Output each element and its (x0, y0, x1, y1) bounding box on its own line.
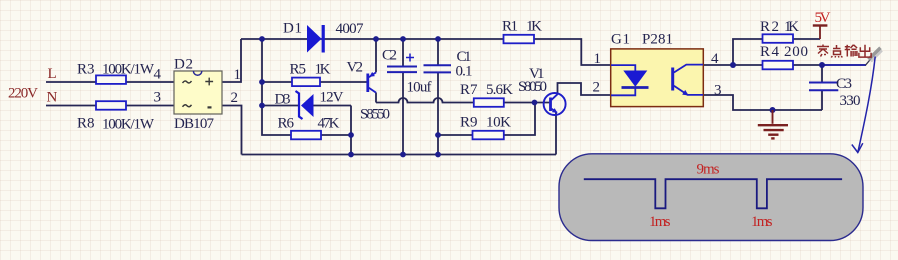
node V1 base (532, 100, 538, 106)
wire D3 anode to column (314, 105, 352, 107)
svg-text:47K: 47K (318, 116, 340, 132)
capacitor C2 10uf (387, 54, 417, 73)
net 零点输出 (drawn glyphs) (817, 45, 871, 58)
wire V1 emitter down to bottom rail (555, 113, 557, 155)
svg-text:R7: R7 (460, 82, 478, 98)
svg-text:12V: 12V (320, 90, 344, 106)
svg-text:P281: P281 (642, 32, 673, 48)
ground symbol (758, 110, 788, 138)
svg-text:2: 2 (231, 90, 239, 106)
svg-text:1ms: 1ms (751, 214, 773, 230)
probe marker at output (869, 48, 881, 60)
wire V2 emitter up to top rail (375, 39, 377, 72)
wire bottom rail (242, 154, 557, 156)
svg-text:0.1: 0.1 (456, 64, 473, 80)
wire C2 top lead (402, 39, 404, 67)
wire R5 branch left (262, 81, 292, 83)
node bottom rail / C2 (400, 152, 406, 158)
waveform trace 9ms/1ms pulses (584, 179, 842, 208)
node bottom rail / C1 (435, 152, 441, 158)
wire vertical rail from top to R6 row (262, 39, 291, 135)
transistor V2 S8550 (PNP) (366, 72, 376, 93)
svg-text:R2: R2 (760, 19, 779, 35)
node pin4 / R2 / R4 (730, 62, 736, 68)
arrow from output to waveform box (852, 57, 875, 153)
resistor R2 (763, 34, 794, 43)
wire V2 collector down (375, 93, 377, 103)
wire R5 to V2 base (320, 81, 367, 83)
svg-text:S8550: S8550 (360, 107, 390, 123)
node rail / D3 (259, 103, 265, 109)
waveform annotation box (559, 154, 863, 241)
svg-text:C3: C3 (836, 76, 852, 92)
svg-text:10uf: 10uf (407, 80, 432, 96)
svg-text:1K: 1K (784, 19, 799, 35)
resistor R1 (504, 35, 535, 44)
svg-text:100K/1W: 100K/1W (102, 117, 155, 133)
resistor R8 (96, 101, 126, 110)
svg-text:C2: C2 (382, 48, 397, 64)
svg-text:9ms: 9ms (697, 162, 720, 178)
svg-text:5V: 5V (815, 10, 831, 26)
svg-text:DB107: DB107 (174, 116, 215, 132)
resistor R4 (763, 61, 794, 70)
node top rail / C2 (400, 36, 406, 42)
svg-text:D1: D1 (283, 21, 302, 37)
node R6 / column (348, 132, 354, 138)
svg-text:10K: 10K (486, 115, 511, 131)
svg-text:4: 4 (711, 51, 719, 67)
transistor V1 S8050 (NPN) (544, 93, 566, 115)
node bottom rail / column (348, 152, 354, 158)
svg-text:1K: 1K (526, 19, 542, 35)
svg-text:V2: V2 (347, 60, 364, 76)
node ground tap (770, 107, 776, 113)
phototransistor inside opto (671, 68, 674, 91)
LED inside opto (611, 65, 635, 70)
wire L input to R3 (46, 81, 96, 83)
svg-text:R6: R6 (278, 116, 295, 132)
wire R1 to opto pin1 (534, 39, 611, 65)
svg-text:3: 3 (714, 83, 722, 99)
svg-text:R5: R5 (290, 62, 307, 78)
wire V1 collector to opto pin2 (558, 83, 612, 95)
svg-text:1K: 1K (315, 62, 331, 78)
wire R9 row left (438, 134, 473, 136)
wire N input to R8 (46, 105, 96, 107)
optocoupler G1 P281 (611, 49, 704, 107)
wire D3 branch left (262, 105, 298, 107)
wire top rail through D1 to R1 (241, 38, 504, 40)
capacitor C3 330 (809, 83, 838, 91)
wire column x351 down to bottom rail (350, 106, 352, 155)
node top rail / V2 emitter (373, 36, 379, 42)
wire R4 to output node (793, 64, 822, 66)
diode D1 4007 (307, 25, 325, 53)
svg-text:4007: 4007 (336, 21, 365, 37)
wire C2 bottom lead (402, 72, 404, 154)
svg-text:4: 4 (154, 67, 162, 83)
svg-text:R3: R3 (77, 62, 95, 78)
svg-text:D2: D2 (174, 57, 193, 73)
svg-text:D3: D3 (275, 92, 291, 108)
svg-text:S8050: S8050 (518, 79, 547, 95)
svg-text:1: 1 (234, 67, 242, 83)
wire C1 top lead (437, 39, 439, 65)
wire R3 to DB107 pin4 (126, 81, 174, 83)
svg-text:R4: R4 (760, 44, 780, 60)
wire R7 row with hops over C2 and C1 (376, 98, 474, 103)
node C1 / R9 (435, 132, 441, 138)
wire opto pin4 to R4 (703, 64, 762, 66)
svg-text:200: 200 (784, 44, 808, 60)
wire DB107 pin1 up to top rail (222, 39, 241, 82)
svg-text:330: 330 (840, 93, 861, 109)
svg-text:N: N (47, 90, 58, 106)
wire R8 to DB107 pin3 (126, 105, 174, 107)
svg-text:R8: R8 (77, 116, 95, 132)
resistor R6 (291, 131, 321, 140)
capacitor C1 0.1 (424, 65, 452, 72)
svg-text:R1: R1 (502, 19, 518, 35)
wire R7 to V1 base node (504, 102, 550, 104)
resistor R3 (96, 75, 126, 84)
5V power symbol (813, 26, 828, 40)
wire opto pin3 to ground row (703, 95, 822, 110)
wire output segment (blue) (822, 64, 866, 66)
resistor R5 (292, 78, 320, 87)
wire R6 to node column (321, 134, 351, 136)
zener diode D3 12V (296, 91, 314, 119)
svg-text:L: L (48, 66, 57, 82)
svg-text:R9: R9 (460, 115, 478, 131)
svg-text:G1: G1 (611, 32, 630, 48)
resistor R7 (474, 98, 504, 107)
svg-text:1ms: 1ms (649, 214, 671, 230)
wire R2 branch up (733, 39, 763, 65)
resistor R9 (473, 131, 504, 140)
svg-text:220V: 220V (8, 86, 38, 102)
bridge rectifier D2 DB107 (174, 71, 222, 114)
node top rail / C1 (435, 36, 441, 42)
wire C1 bottom lead (437, 72, 439, 154)
wire C3 bottom lead (821, 90, 823, 110)
node rail / R5 (259, 79, 265, 85)
wire DB107 pin2 down to bottom rail (222, 106, 242, 155)
wire output diagonal stub (866, 55, 875, 66)
svg-text:100K/1W: 100K/1W (102, 62, 155, 78)
node output / C3 (819, 62, 825, 68)
svg-text:1: 1 (594, 51, 602, 67)
svg-text:5.6K: 5.6K (486, 82, 513, 98)
wire C3 top lead (821, 65, 823, 83)
svg-text:3: 3 (154, 90, 162, 106)
wire R9 right up to base node (504, 103, 535, 136)
wire R2 to 5V (793, 38, 820, 40)
node top rail / vertical rail (259, 36, 265, 42)
svg-text:2: 2 (593, 80, 601, 96)
